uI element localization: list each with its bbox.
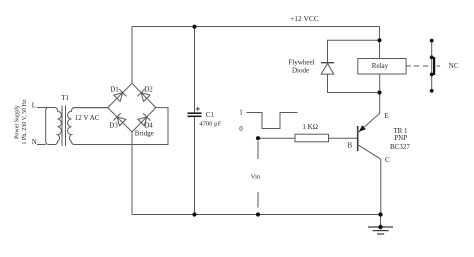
svg-text:N: N [32,138,37,146]
transistor collector diagonal [358,145,381,160]
wire resistor to base [329,137,358,139]
transformer T1 secondary winding [68,108,108,145]
wire bridge top vertical [131,27,133,84]
bridge diamond wires [108,83,156,132]
wire flywheel diode branch top [328,40,380,62]
svg-text:1: 1 [239,108,243,116]
transistor emitter arrowhead [359,125,366,132]
svg-text:Diode: Diode [292,67,309,75]
wire flywheel diode branch bottom [328,74,380,92]
svg-text:D4: D4 [144,121,153,129]
transformer T1 primary winding [37,108,61,145]
svg-text:Vin: Vin [251,174,261,181]
wire bottom rail [132,214,381,216]
svg-text:12 V AC: 12 V AC [75,114,100,122]
wire top rail +12VCC [132,27,380,59]
svg-text:Power Supply: Power Supply [14,105,20,139]
wire bridge right vertex down to secondary bottom [74,108,169,145]
capacitor C1 plates [188,113,202,116]
diode D4 [138,113,151,126]
svg-text:Flywheel: Flywheel [289,58,315,66]
diode D1 [114,89,127,102]
svg-text:D2: D2 [144,86,153,94]
svg-text:C: C [385,156,390,164]
diode D2 [137,89,150,102]
svg-text:1 Ph, 230 V, 50 Hz: 1 Ph, 230 V, 50 Hz [22,99,28,145]
svg-text:1 KΩ: 1 KΩ [302,123,318,131]
wire secondary top to bridge left vertex [74,107,108,109]
svg-text:T1: T1 [61,94,69,102]
wire Vin node to resistor [258,137,295,139]
diode D3 [113,113,126,126]
NC contact moving bar [433,57,435,75]
transformer core [62,106,66,147]
svg-text:4700 µF: 4700 µF [199,120,221,127]
svg-text:0: 0 [239,125,243,133]
resistor 1 KΩ [295,134,329,142]
svg-text:Relay: Relay [372,62,389,70]
svg-text:C1: C1 [206,111,215,119]
wire Vin vertical segment lower [257,192,259,208]
svg-text:L: L [32,102,36,110]
wire emitter vertical [379,74,381,113]
svg-text:PNP: PNP [394,134,407,142]
ground symbol [368,227,393,234]
transistor Q TR1 base bar [357,126,359,151]
svg-text:D3: D3 [109,121,118,129]
dashed mechanical link relay to NC [406,65,440,67]
svg-text:NC: NC [449,62,459,70]
NC contact wire [431,41,433,91]
relay box [358,59,406,75]
wire ground lead [380,215,382,228]
svg-text:D1: D1 [110,86,119,94]
wire capacitor bottom lead [194,117,196,215]
wire collector vertical [380,159,382,214]
svg-text:BC327: BC327 [390,143,410,151]
svg-text:E: E [384,112,388,120]
capacitor plus sign [196,107,200,111]
wire Vin vertical segment upper [257,141,259,159]
wire bridge bottom vertical [131,132,133,215]
svg-text:Bridge: Bridge [135,129,154,137]
flywheel diode cathode bar [321,62,334,64]
wire capacitor top lead [194,27,196,113]
flywheel diode triangle [321,63,334,74]
svg-text:B: B [348,141,353,149]
svg-text:+12 VCC: +12 VCC [290,14,319,23]
transistor emitter diagonal [358,113,380,133]
pulse waveform [247,113,298,129]
